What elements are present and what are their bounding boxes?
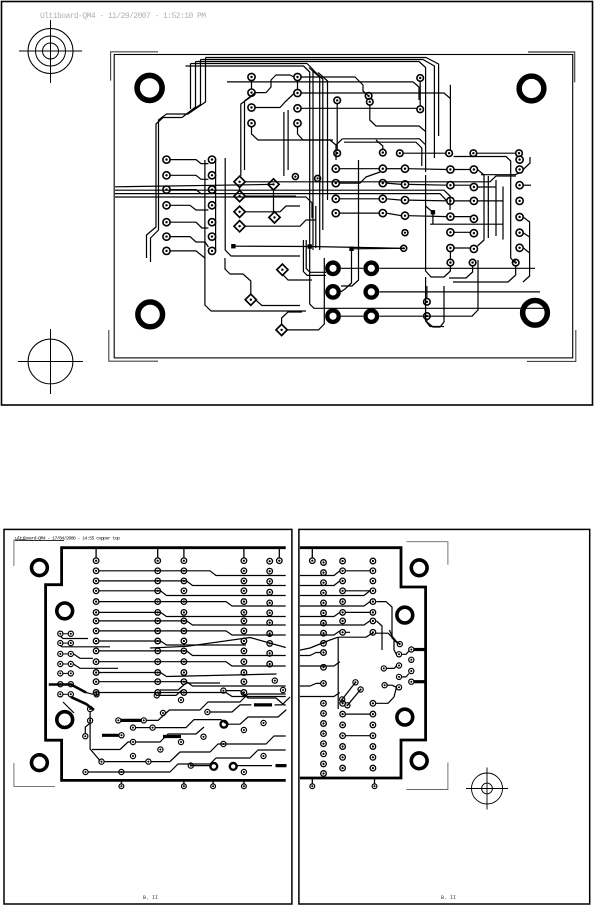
wire v4: [419, 81, 421, 106]
pad col8: [321, 610, 327, 616]
pin stub top: [157, 549, 159, 558]
wire u2d: [339, 212, 379, 214]
wire mesh4: [478, 186, 497, 188]
wire diag pair2: [347, 690, 360, 706]
pad col6: [340, 744, 346, 750]
IC U2 pin 3: [332, 195, 339, 202]
thick stub R2: [414, 680, 426, 683]
wire j2d: [409, 215, 447, 218]
wire bundle t3: [147, 62, 196, 259]
pad col3: [181, 568, 187, 574]
IC U3 pin 3: [447, 197, 454, 204]
wire stair3b: [227, 710, 286, 724]
power pad P6: [366, 310, 378, 322]
wire pair: [63, 642, 68, 644]
pad pairL: [58, 692, 63, 697]
pad col3: [181, 599, 187, 605]
page corner mark TL: [14, 540, 26, 566]
connector J1 pin 7: [163, 247, 170, 254]
pad col8: [321, 731, 327, 737]
thick trace bar1: [102, 720, 181, 736]
wire rdiag: [299, 637, 339, 650]
mounting hole H3: [138, 302, 163, 327]
wire bus2: [115, 194, 447, 201]
pin pad: [93, 558, 99, 564]
via V2: [365, 93, 372, 100]
mounting hole ML4: [32, 755, 48, 771]
pad col4: [241, 679, 247, 685]
pad col3: [181, 690, 187, 696]
wire p4r: [379, 291, 540, 293]
pad col4: [241, 588, 247, 594]
via V3: [367, 99, 374, 106]
via V7: [380, 149, 387, 156]
pad col4: [241, 618, 247, 624]
via: [205, 709, 210, 714]
mounting hole ML1: [32, 560, 48, 576]
via: [154, 693, 159, 698]
IC U3 pin 9: [470, 197, 477, 204]
wire d12: [239, 187, 241, 191]
wire s3: [159, 690, 182, 695]
wire ring link2: [236, 765, 272, 767]
via V15: [424, 299, 431, 306]
wire y762: [104, 761, 145, 763]
pad col1: [93, 588, 99, 594]
pad col2: [155, 599, 161, 605]
wire h7: [99, 631, 286, 635]
pad clu5: [397, 642, 402, 647]
wire u1h: [252, 127, 338, 146]
via scatter: [160, 710, 165, 715]
diamond pad D8: [277, 264, 288, 275]
pad col3: [181, 670, 187, 676]
IC U2 pin 8: [379, 165, 386, 172]
wire td2: [86, 693, 93, 695]
wire u3: [454, 184, 470, 186]
board outline bottom-right part: [298, 548, 426, 778]
pin stub top: [183, 549, 185, 558]
wire h82: [227, 82, 419, 100]
pad col2: [155, 679, 161, 685]
wire top b5: [186, 66, 310, 247]
wire u3: [454, 216, 470, 218]
header J2 pin 2: [401, 181, 408, 188]
pad col7: [370, 722, 376, 728]
via V8: [397, 150, 404, 157]
via: [83, 734, 88, 739]
wire br4: [426, 286, 428, 299]
pin stub bottom R2: [374, 779, 376, 784]
pad col6: [340, 558, 346, 564]
wire h1: [99, 571, 286, 576]
corner crop mark bottom-left: [109, 330, 158, 361]
wire edge diag: [63, 702, 74, 713]
connector J1 pin 13: [208, 233, 215, 240]
wire u2g: [386, 199, 401, 200]
junction J2: [349, 247, 353, 251]
wire loop2: [344, 142, 422, 166]
wire m1: [376, 140, 383, 149]
page corner mark TR: [406, 542, 448, 565]
pad col8: [321, 641, 327, 647]
via: [150, 725, 155, 730]
wire jj2: [352, 247, 406, 250]
wire h224: [430, 223, 503, 225]
connector J3 pin 4: [516, 197, 523, 204]
pad col8: [321, 630, 327, 636]
pad col6: [340, 610, 346, 616]
IC U3 pin 1: [447, 166, 454, 173]
wire u3: [454, 231, 470, 233]
wire u1 desc1: [241, 96, 252, 176]
pad col2: [155, 610, 161, 616]
mounting hole MR3: [397, 709, 413, 725]
pad col3: [181, 610, 187, 616]
pad col4: [241, 659, 247, 665]
pad col3: [181, 679, 187, 685]
wire u1f: [301, 93, 450, 99]
wire bundle t4: [190, 64, 192, 110]
pad col5: [267, 568, 273, 574]
pad col4: [241, 610, 247, 616]
corner crop mark top-right: [528, 52, 575, 82]
pin pad: [242, 784, 247, 789]
pad col7: [370, 733, 376, 739]
via V20: [401, 245, 407, 251]
pad clu2: [409, 647, 414, 652]
IC U3 pin 2: [447, 182, 454, 189]
pad col8: [321, 741, 327, 747]
IC U2 pin 6: [379, 195, 386, 202]
wire rh9: [298, 653, 321, 656]
mounting hole MR1: [411, 560, 427, 576]
wire v503: [502, 187, 504, 240]
pad col6: [340, 701, 346, 707]
via V6: [334, 150, 341, 157]
pad col6: [340, 599, 346, 605]
wire v319: [309, 68, 320, 250]
via V4: [417, 75, 424, 82]
wire top b2: [201, 60, 435, 159]
pad col2: [155, 638, 161, 644]
wire h10: [99, 662, 286, 666]
svg-text:B. II: B. II: [143, 895, 158, 901]
wire bundle t1: [151, 58, 206, 263]
pad col2: [155, 618, 161, 624]
pad clu1: [396, 674, 401, 679]
pad col5: [267, 579, 273, 585]
wire rr10: [376, 687, 397, 703]
junction J1: [308, 244, 312, 248]
pad col5: [267, 631, 273, 637]
wire diagonal: [150, 638, 286, 649]
wire h11: [99, 673, 277, 677]
wire hook529b: [523, 233, 529, 237]
via scatter: [130, 753, 135, 758]
wire br1b: [426, 277, 444, 327]
pad col1: [93, 679, 99, 685]
wire j1f: [170, 237, 208, 247]
wire j1d: [170, 205, 208, 210]
via V11: [516, 150, 523, 157]
wire v225: [225, 158, 300, 256]
diamond pad D6: [269, 212, 280, 223]
IC U2 pin 7: [379, 180, 386, 187]
wire v327: [318, 73, 328, 201]
pad col1: [93, 599, 99, 605]
pad pairR: [68, 682, 73, 687]
wire rr2: [345, 590, 370, 592]
via: [141, 718, 146, 723]
wire jdot connect: [426, 206, 433, 224]
wire stair3: [155, 720, 227, 728]
wire s9: [275, 697, 290, 705]
IC U2 pin 5: [379, 210, 386, 217]
pad pairL: [58, 631, 63, 636]
pad col7: [370, 744, 376, 750]
pad col6: [340, 630, 346, 636]
IC U3 pin 11: [470, 230, 477, 237]
wire u1g: [301, 107, 417, 109]
wire v315: [315, 206, 317, 248]
via col5x: [272, 678, 277, 683]
pad col5: [267, 589, 273, 595]
wire br3: [453, 266, 516, 282]
wire rr8: [386, 685, 396, 687]
pin pad: [181, 558, 187, 564]
via: [94, 692, 99, 697]
pad col8: [321, 665, 327, 671]
wire rr1: [345, 570, 370, 572]
IC U3 pin 10: [470, 215, 477, 222]
pad col6: [340, 711, 346, 717]
wire s7: [160, 683, 220, 690]
connector J3 pin 7: [516, 244, 523, 251]
wire bl4: [282, 312, 302, 325]
wire pairhook1: [60, 646, 110, 647]
wire v322: [313, 70, 323, 230]
via V14: [512, 259, 519, 266]
wire ring link: [191, 765, 211, 767]
wire v215: [215, 160, 217, 251]
pad col4: [241, 690, 247, 696]
wire pair: [63, 633, 68, 635]
wire via v6: [336, 104, 338, 150]
wire rr3: [345, 611, 370, 613]
via scatter: [241, 769, 246, 774]
wire v496: [495, 180, 497, 236]
connector J1 pin 14: [208, 247, 215, 254]
pin stub bottom: [212, 779, 214, 784]
wire clu2: [402, 674, 410, 677]
IC U1 pin 8: [294, 73, 301, 80]
wire loop1: [342, 139, 425, 145]
via dp3: [345, 703, 350, 708]
via V19: [402, 230, 408, 236]
pad col6: [340, 755, 346, 761]
connector J3 pin 1: [516, 156, 523, 163]
pad col3: [181, 648, 187, 654]
via: [130, 725, 135, 730]
pin stub top R: [311, 549, 313, 558]
connector J1 pin 10: [208, 186, 215, 193]
IC U2 pin 2: [332, 180, 339, 187]
pad col8: [321, 570, 327, 576]
wire u2e: [386, 168, 401, 170]
wire clu1: [402, 651, 410, 655]
wire rr5: [377, 621, 383, 650]
wire j2c: [409, 199, 447, 202]
pad clu2: [409, 679, 414, 684]
wire top b4: [191, 64, 314, 251]
power pad P5: [327, 310, 339, 322]
power pad P3: [327, 286, 339, 298]
via dp1: [340, 697, 345, 702]
pad col5: [267, 661, 273, 667]
wire rh10: [298, 662, 340, 666]
wire u1d: [297, 81, 299, 90]
via scatter: [261, 720, 266, 725]
wire h637: [338, 633, 373, 637]
wire s5: [92, 742, 131, 750]
wire v488: [487, 176, 489, 238]
via: [83, 769, 88, 774]
pad col5: [267, 651, 273, 657]
pad col7: [370, 755, 376, 761]
pad clu1: [396, 685, 401, 690]
wire pair: [63, 663, 68, 665]
wire thick diag2: [71, 697, 94, 710]
wire u1 desc2: [245, 93, 256, 170]
via V9: [446, 150, 453, 157]
pad pairL: [58, 651, 63, 656]
pad col3: [181, 618, 187, 624]
pad col7: [370, 701, 376, 707]
wire loop1b: [336, 139, 342, 160]
wire rh2: [298, 581, 340, 586]
wire j1: [170, 190, 208, 194]
pad col8: [321, 600, 327, 606]
pad col4: [241, 628, 247, 634]
power pad P2: [366, 263, 378, 275]
pad clu3: [381, 666, 386, 671]
wire d4r: [244, 220, 316, 226]
pad col4: [241, 648, 247, 654]
pin pad: [310, 558, 316, 564]
wire rr7: [345, 631, 350, 633]
wire u1 desc4: [287, 110, 289, 170]
connector J1 pin 3: [163, 186, 170, 193]
pad col7: [370, 765, 376, 771]
wire u3: [454, 169, 470, 171]
pin stub top: [95, 549, 97, 558]
via dp4: [358, 687, 363, 692]
via scatter: [280, 687, 285, 692]
diamond pad D4: [234, 221, 245, 232]
pad pairL: [58, 682, 63, 687]
pad col6: [340, 765, 346, 771]
pad col6: [340, 568, 346, 574]
wire v351: [341, 249, 352, 292]
pin pad: [211, 784, 216, 789]
wire d56: [273, 189, 275, 213]
wire br2: [449, 266, 473, 278]
pad col8: [321, 751, 327, 757]
wire bl5: [286, 258, 324, 330]
IC U2 pin 4: [332, 210, 339, 217]
via ring VR3: [230, 763, 237, 770]
wire bundle t2: [185, 60, 201, 116]
wire thick diag1: [49, 685, 86, 693]
pin pad: [241, 558, 247, 564]
pad col3: [181, 638, 187, 644]
IC U1 pin 1: [248, 73, 255, 80]
pad col5: [267, 558, 273, 564]
wire pairhook2: [73, 654, 93, 658]
pad col6: [340, 588, 346, 594]
pad col5: [267, 600, 273, 606]
pad pairR: [68, 651, 73, 656]
wire stair4: [136, 727, 204, 742]
page corner mark BR: [406, 762, 448, 789]
connector J1 pin 4: [163, 202, 170, 209]
wire u2b: [339, 172, 380, 183]
wire pair: [63, 653, 68, 655]
pad pairR: [68, 631, 73, 636]
IC U1 pin 6: [294, 105, 301, 112]
via V5: [417, 106, 424, 113]
pad col4: [241, 638, 247, 644]
wire y727a: [136, 727, 150, 729]
via: [116, 718, 121, 723]
wire u2f: [386, 183, 401, 184]
wire h9: [99, 651, 286, 656]
pad col7: [370, 618, 376, 624]
connector J1 pin 5: [163, 219, 170, 226]
wire m3: [477, 152, 516, 154]
pad col8: [321, 771, 327, 777]
top sheet frame: [2, 2, 593, 406]
wire rh1: [298, 571, 340, 576]
registration target mark bottom-right: [466, 768, 508, 810]
pad col4: [241, 578, 247, 584]
wire bus0: [115, 184, 274, 186]
board outline bottom-left part: [46, 548, 286, 781]
wire diag pair1: [342, 682, 355, 699]
pad col1: [93, 568, 99, 574]
corner crop mark bottom-right: [527, 330, 576, 361]
connector J3 pin 6: [516, 229, 523, 236]
pad col2: [155, 648, 161, 654]
pad col8: [321, 590, 327, 596]
via: [146, 759, 151, 764]
wire top b1: [206, 58, 439, 137]
mounting hole ML2: [57, 603, 73, 619]
wire v204: [205, 160, 306, 311]
pad col5: [267, 610, 273, 616]
wire u1c: [255, 94, 294, 108]
IC U3 pin 6: [447, 244, 454, 251]
via dp2: [353, 680, 358, 685]
wire stair6: [226, 691, 286, 705]
pad col8: [321, 711, 327, 717]
header J2 pin 4: [401, 212, 408, 219]
pad col3: [181, 628, 187, 634]
IC U3 pin 4: [447, 213, 454, 220]
pin pad: [182, 784, 187, 789]
via scatter: [241, 727, 246, 732]
